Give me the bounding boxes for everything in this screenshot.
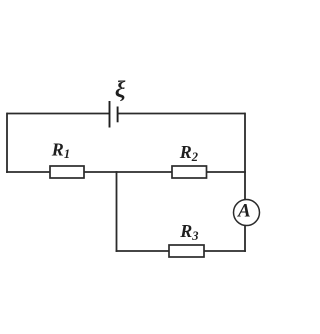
resistor R3	[169, 245, 204, 257]
svg-text:R3: R3	[179, 221, 198, 243]
wire middle vertical (junction down to bottom row)	[116, 171, 118, 252]
wire right vertical lower (ammeter to bottom corner)	[244, 226, 246, 252]
battery (EMF source) short plate	[117, 107, 119, 123]
resistor R2	[172, 166, 207, 178]
wire middle row: left wire to R1	[6, 171, 50, 173]
svg-text:A: A	[237, 201, 251, 222]
wire bottom row: R3 to right wire	[204, 250, 246, 252]
wire bottom row: junction to R3	[116, 250, 169, 252]
wire middle row: R2 to right wire	[207, 171, 246, 173]
wire right vertical upper (top corner to ammeter)	[244, 113, 246, 200]
wire top-left segment	[7, 113, 110, 115]
resistor R1	[50, 166, 84, 178]
wire top-right segment	[118, 113, 245, 115]
svg-text:R2: R2	[179, 142, 198, 164]
wire middle row: R1 to junction to R2	[84, 171, 172, 173]
battery (EMF source) long plate	[109, 101, 111, 128]
wire left vertical	[6, 113, 8, 173]
svg-text:R1: R1	[51, 139, 70, 161]
ammeter A circle	[234, 200, 260, 226]
svg-text:ξ: ξ	[115, 77, 126, 103]
